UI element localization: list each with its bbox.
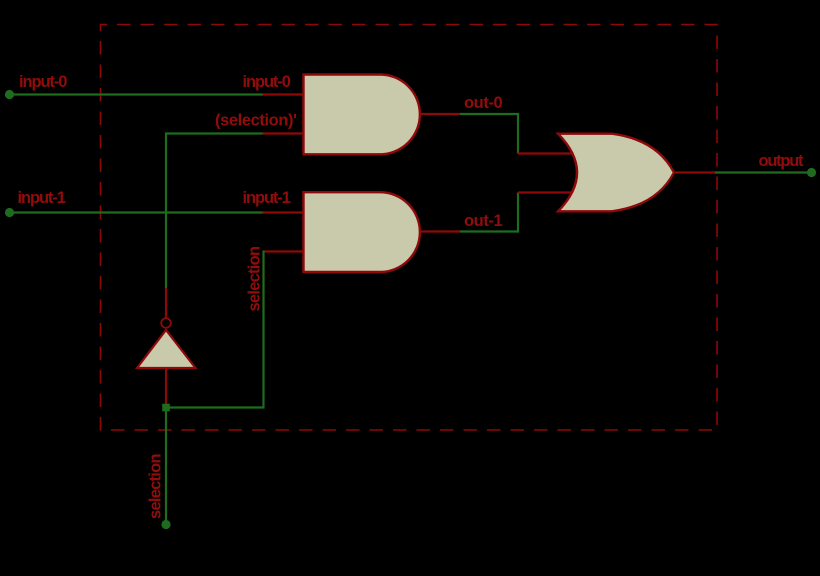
wire selection horizontal green to junction: [166, 406, 265, 408]
chip boundary dashed box: [101, 25, 718, 431]
wire (selection)' red pin stub into U1: [263, 132, 306, 134]
svg-text:input-0: input-0: [19, 73, 67, 91]
node input-0 terminal: [5, 90, 14, 99]
wire selection vertical green riser: [262, 251, 264, 408]
svg-text:input-1: input-1: [243, 189, 291, 207]
wire selection vertical green below boundary: [165, 408, 167, 525]
wire selection red pin stub into U2: [264, 250, 306, 252]
wire output green segment: [715, 171, 811, 173]
wire out-1 red stub from U2 output: [420, 230, 461, 232]
wire output red stub from U3: [674, 171, 716, 173]
wire input-1 red pin stub into U2: [263, 211, 306, 213]
wire out-0 red stub into U3: [518, 152, 574, 154]
wire (selection)' horizontal green segment: [165, 132, 264, 134]
svg-text:out-1: out-1: [464, 212, 503, 230]
svg-text:selection: selection: [147, 454, 165, 519]
svg-text:input-0: input-0: [243, 73, 291, 91]
svg-text:input-1: input-1: [18, 189, 66, 207]
wire red stub into U4 bubble: [165, 288, 167, 318]
node input-1 terminal: [5, 208, 14, 217]
wire input-0 green segment: [10, 93, 264, 95]
and gate U1: [304, 75, 420, 155]
or gate U3: [558, 134, 674, 212]
node output terminal: [807, 168, 816, 177]
svg-text:output: output: [759, 152, 805, 170]
svg-text:(selection)': (selection)': [215, 112, 297, 130]
wire out-1 red stub into U3: [518, 191, 572, 193]
and gate U2: [304, 192, 420, 272]
node selection terminal: [161, 520, 170, 529]
wire out-0 green segment: [460, 113, 518, 115]
not gate U4 bubble: [161, 318, 171, 328]
svg-text:out-0: out-0: [464, 94, 503, 112]
wire out-0 red stub from U1 output: [420, 113, 461, 115]
wire out-1 green segment: [460, 230, 518, 232]
wire input-0 red pin stub into U1: [263, 93, 306, 95]
wire NOT output to (selection)' corner vertical green: [165, 133, 167, 290]
wire out-0 green drop: [517, 113, 519, 154]
svg-text:selection: selection: [246, 246, 264, 311]
not gate U4 triangle: [137, 330, 196, 368]
wire input-1 green segment: [10, 211, 264, 213]
wire U4 output red stub down to junction: [165, 368, 167, 408]
junction selection net: [162, 404, 170, 412]
wire out-1 green rise: [517, 193, 519, 233]
